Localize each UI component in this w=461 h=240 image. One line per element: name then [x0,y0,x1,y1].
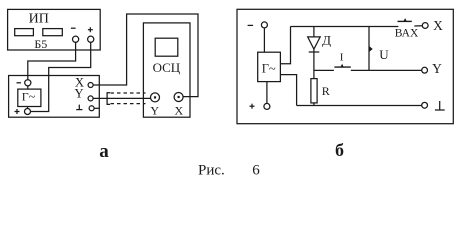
svg-text:X: X [174,103,183,117]
svg-text:Г~: Г~ [22,90,36,104]
U probe pin [369,46,372,51]
svg-text:Г~: Г~ [262,62,276,76]
plus sign ИП [88,29,93,31]
switch ВАХ pin [403,18,407,21]
block Г~ [18,89,41,106]
wire ground to chassis [94,107,99,109]
svg-text:ИП: ИП [29,12,49,27]
wire I jumper to Y terminal [351,69,422,71]
minus sign generator [17,82,22,84]
svg-text:Б5: Б5 [34,37,47,51]
power supply box ИП/Б5 [8,9,101,50]
plus sign [250,105,255,107]
bottom rail [297,105,422,107]
svg-text:6: 6 [252,163,260,179]
cable shield dashed bottom [111,103,146,105]
terminal ground right [422,102,428,108]
svg-text:Y: Y [74,87,83,101]
svg-text:Y: Y [432,61,442,76]
svg-text:а: а [99,141,109,162]
terminal + of ИП [88,36,94,42]
generator box [9,76,100,118]
wire Г~ to terminal+ [27,107,29,109]
ground symbol right [435,109,445,111]
svg-text:Y: Y [150,103,159,117]
cable connector bracket [107,93,110,105]
svg-text:Д: Д [322,33,331,48]
terminal X right [422,23,428,29]
terminal - of generator [25,80,31,86]
wire ИП minus to generator minus [28,42,76,79]
oscilloscope box [143,23,190,117]
top rail [291,26,399,28]
svg-text:ОСЦ: ОСЦ [153,60,181,75]
minus sign ИП [71,27,76,29]
wire Г~ lower output to bottom rail [280,75,296,106]
circuit box б [237,9,453,123]
svg-text:I: I [340,52,344,64]
osc Y input connector [151,93,160,102]
cable shield dashed top [111,92,146,94]
wire gen X around oscilloscope to osc X input [93,14,198,97]
svg-text:U: U [379,47,389,62]
svg-text:б: б [335,140,344,160]
oscilloscope screen [155,38,178,56]
ground symbol gen [76,109,82,111]
wire - to Г~ [263,28,265,52]
diode Д [313,27,315,37]
svg-text:R: R [322,84,330,98]
wire node to I jumper [314,69,334,71]
terminal ground gen [89,106,94,111]
knob slot 2 [43,29,63,36]
terminal X gen [88,83,93,88]
jumper I pin [340,64,343,67]
terminal + [264,103,270,109]
wire Г~ to + [266,82,268,104]
switch ВАХ bar [398,20,412,22]
svg-text:Рис.: Рис. [198,163,225,179]
osc X input connector [174,93,183,102]
wire ИП plus to generator plus [31,42,91,111]
wire gen Y to osc Y input (center of cable) [93,97,150,99]
terminal - [261,22,267,28]
terminal + of generator [25,109,31,115]
terminal Y right [422,67,428,73]
svg-text:ВАХ: ВАХ [395,27,419,39]
terminal - of ИП [73,36,79,42]
block Г~ right [258,52,281,81]
wire switch to X terminal [414,25,422,27]
jumper I bar [334,66,350,68]
knob slot 1 [15,29,34,36]
minus sign [248,24,254,26]
svg-text:X: X [433,18,443,33]
resistor R [311,79,317,103]
terminal Y gen [88,96,93,101]
wire terminal- to Г~ [27,86,29,89]
U probe vertical wire [368,27,370,71]
wire Г~ upper output to top rail [280,27,290,64]
plus sign generator [15,111,20,113]
